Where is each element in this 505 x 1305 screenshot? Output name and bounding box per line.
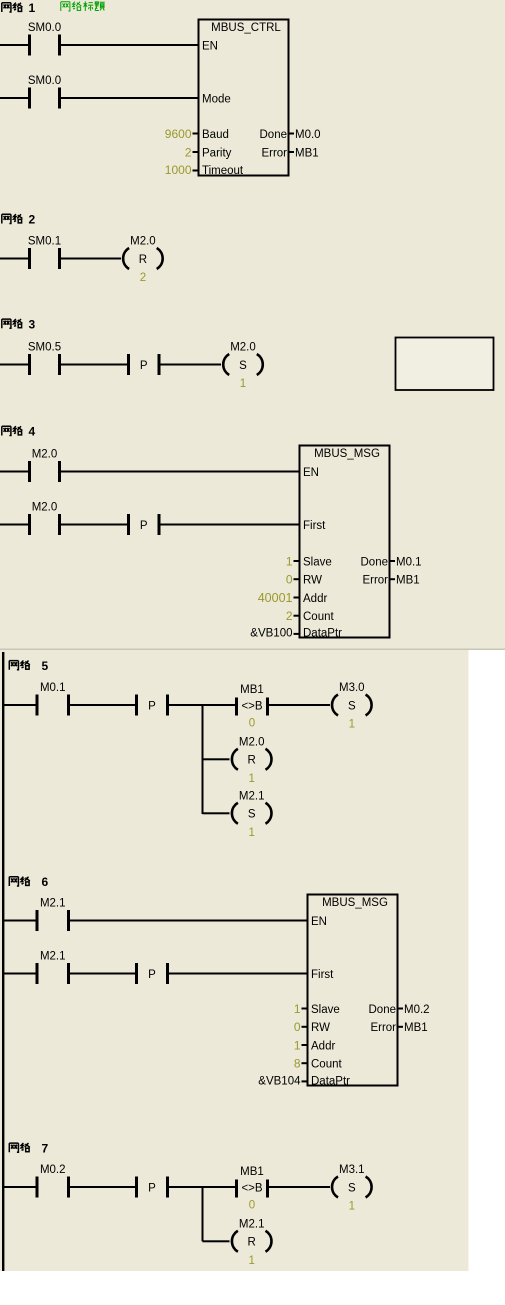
svg-text:M2.0: M2.0 [32,502,58,514]
branch junction vertical n7 [202,1186,204,1241]
value 0 RW input (n6) [294,1020,308,1034]
svg-text:40001: 40001 [258,591,293,605]
svg-text:RW: RW [311,1022,330,1034]
contact M0.1 n5 [36,682,71,716]
svg-text:MB1: MB1 [396,575,420,587]
svg-text:P: P [140,520,148,532]
coil S M2.1 value 1 (n5 branch3) [232,790,272,839]
svg-text:M2.1: M2.1 [239,790,265,802]
network 6 label [9,875,48,889]
svg-text:MB1: MB1 [240,684,264,696]
output Done -> M0.2 (n6) [398,1004,430,1016]
svg-text:1: 1 [248,1255,254,1267]
output Error -> MB1 [289,147,319,159]
wire n1 rung1 to EN [61,44,198,46]
wire n3 left [0,364,28,366]
svg-text:0: 0 [249,718,255,730]
contact SM0.1 n2 [28,236,61,270]
wire n6 rung2 to First [169,973,308,975]
svg-text:0: 0 [286,573,293,587]
svg-text:SM0.0: SM0.0 [28,22,61,34]
svg-text:1: 1 [248,773,254,785]
svg-text:M2.0: M2.0 [32,449,58,461]
svg-text:M3.0: M3.0 [339,682,365,694]
value 8 Count input (n6) [294,1057,308,1071]
svg-text:9600: 9600 [165,127,192,141]
wire n7 mid1 [70,1186,135,1188]
value 1 Slave input (n6) [294,1002,308,1016]
svg-text:S: S [348,1182,356,1194]
compare contact MB1 <>B 0 n5 [235,684,269,730]
function block MBUS_CTRL U1 [199,20,289,178]
svg-text:Mode: Mode [202,93,231,105]
svg-text:R: R [248,755,256,767]
svg-text:R: R [248,1237,256,1249]
svg-text:DataPtr: DataPtr [303,628,342,640]
svg-text:MBUS_CTRL: MBUS_CTRL [211,22,281,34]
svg-text:8: 8 [294,1057,301,1071]
value 40001 Addr input [258,591,300,605]
network 4 label [2,425,36,439]
svg-text:MBUS_MSG: MBUS_MSG [314,448,380,460]
wire n6 rung1 from rail [3,920,36,922]
svg-text:Slave: Slave [311,1004,340,1016]
wire n5 mid2 through junction [169,704,235,706]
svg-text:<>B: <>B [241,1182,262,1194]
svg-text:P: P [148,700,156,712]
svg-text:4: 4 [29,425,36,439]
svg-text:MB1: MB1 [295,147,319,159]
svg-text:Error: Error [362,575,388,587]
value 2 Count input [286,609,300,623]
svg-text:Done: Done [361,556,389,568]
coil S M3.1 value 1 [332,1164,372,1213]
svg-text:1: 1 [286,554,293,568]
wire n3 to coil [161,364,222,366]
svg-text:P: P [148,1182,156,1194]
svg-text:S: S [348,700,356,712]
white page area right of bottom pane [469,650,505,1271]
wire n6 rung2 from rail [3,973,36,975]
wire n2 to coil [61,258,121,260]
svg-text:Timeout: Timeout [202,165,244,177]
svg-text:Addr: Addr [303,593,327,605]
contact SM0.0 n1 rung1 [28,22,61,56]
svg-text:<>B: <>B [241,700,262,712]
svg-text:M2.1: M2.1 [40,898,66,910]
svg-text:1000: 1000 [165,163,192,177]
svg-text:EN: EN [311,916,327,928]
contact M2.0 n4 rung2 [28,502,61,536]
svg-text:Slave: Slave [303,556,332,568]
svg-text:S: S [239,360,247,372]
wire n5 to coil M3.0 [269,704,330,706]
svg-text:M0.2: M0.2 [40,1164,66,1176]
svg-text:2: 2 [185,145,192,159]
coil R M2.0 value 1 (n5 branch2) [232,736,272,785]
svg-text:Addr: Addr [311,1040,335,1052]
network 3 label [2,317,36,331]
output Error -> MB1 (n6) [398,1022,428,1034]
svg-text:0: 0 [249,1200,255,1212]
wire n7 from rail [3,1186,36,1188]
positive edge contact P n5 [135,695,169,716]
svg-text:EN: EN [303,467,319,479]
wire n6 rung1 to EN [70,920,308,922]
svg-text:Error: Error [370,1022,396,1034]
output Error -> MB1 [390,575,420,587]
output Done -> M0.0 [289,129,321,141]
compare contact MB1 <>B 0 n7 [235,1166,269,1212]
function block MBUS_MSG U3 [308,895,398,1088]
svg-text:Error: Error [261,147,287,159]
svg-text:1: 1 [294,1002,301,1016]
svg-text:Done: Done [369,1004,397,1016]
wire n3 mid [61,364,127,366]
svg-text:M0.0: M0.0 [295,129,321,141]
network 5 label [9,659,48,673]
svg-text:7: 7 [42,1141,49,1155]
function block MBUS_MSG U2 [300,446,390,640]
svg-text:Parity: Parity [202,147,232,159]
svg-text:P: P [140,360,148,372]
svg-text:R: R [139,254,147,266]
svg-text:M2.0: M2.0 [239,736,265,748]
value 0 RW input [286,573,300,587]
value &VB100 DataPtr input [250,628,299,640]
svg-text:3: 3 [29,317,36,331]
wire n4 rung1 to EN [61,471,299,473]
svg-text:S: S [248,809,256,821]
coil S M2.0 value 1 [223,342,263,391]
value &VB104 DataPtr input (n6) [258,1075,307,1087]
network 2 label [2,213,36,227]
svg-text:1: 1 [294,1038,301,1052]
svg-text:Done: Done [260,129,288,141]
wire n4 rung1 left [0,471,28,473]
svg-text:M0.1: M0.1 [40,682,66,694]
contact M2.1 n6 rung1 [36,898,71,932]
svg-text:First: First [311,969,334,981]
svg-text:Baud: Baud [202,129,229,141]
svg-text:First: First [303,520,326,532]
svg-text:Count: Count [303,611,334,623]
contact M0.2 n7 [36,1164,71,1198]
branch junction vertical n5 [202,704,204,814]
svg-text:M3.1: M3.1 [339,1164,365,1176]
white band below bottom pane [0,1271,505,1300]
left power rail (bottom pane) [2,652,4,1271]
value 1000 Timeout input [165,163,199,177]
network title text (green) [61,1,105,11]
svg-text:M2.1: M2.1 [239,1218,265,1230]
wire n5 mid1 [70,704,135,706]
svg-text:2: 2 [140,272,146,284]
network 1 label [2,1,36,15]
editor background (top pane) [0,0,505,650]
svg-text:P: P [148,969,156,981]
wire n1 rung1 left [0,44,28,46]
svg-text:SM0.0: SM0.0 [28,75,61,87]
svg-text:M2.0: M2.0 [130,236,156,248]
svg-text:Count: Count [311,1059,342,1071]
output Done -> M0.1 [390,556,422,568]
value 9600 Baud input [165,127,199,141]
svg-text:SM0.5: SM0.5 [28,342,61,354]
positive edge contact P n7 [135,1177,169,1198]
svg-text:DataPtr: DataPtr [311,1075,350,1087]
svg-text:1: 1 [349,719,355,731]
wire n7 mid2 through junction [169,1186,235,1188]
svg-text:M2.1: M2.1 [40,951,66,963]
svg-text:2: 2 [286,609,293,623]
branch 2 wire n5 [203,758,230,760]
contact M2.0 n4 rung1 [28,449,61,483]
contact SM0.0 n1 rung2 [28,75,61,109]
wire n1 rung2 to Mode [61,97,198,99]
svg-text:M0.2: M0.2 [404,1004,430,1016]
coil S M3.0 value 1 [332,682,372,731]
wire n6 rung2 mid [70,973,135,975]
editor background (bottom pane) [0,650,469,1271]
wire n7 to coil M3.1 [269,1186,330,1188]
contact SM0.5 n3 [28,342,61,376]
positive edge contact P n4 [127,514,161,535]
wire n5 from rail [3,704,36,706]
svg-text:6: 6 [42,875,49,889]
coil R M2.1 value 1 (n7 branch2) [232,1218,272,1267]
wire n4 rung2 mid [61,524,127,526]
svg-text:1: 1 [240,378,246,390]
wire n4 rung2 to First [161,524,300,526]
wire n4 rung2 left [0,524,28,526]
svg-text:MB1: MB1 [404,1022,428,1034]
svg-text:MBUS_MSG: MBUS_MSG [322,897,388,909]
svg-text:&VB100: &VB100 [250,628,292,640]
svg-text:5: 5 [42,659,49,673]
branch 2 wire n7 [203,1240,230,1242]
svg-text:M2.0: M2.0 [230,342,256,354]
svg-text:RW: RW [303,575,322,587]
svg-text:&VB104: &VB104 [258,1075,301,1087]
network 7 label [9,1141,48,1155]
svg-text:MB1: MB1 [240,1166,264,1178]
svg-text:EN: EN [202,40,218,52]
empty selection box at right [396,338,494,391]
svg-text:1: 1 [29,1,36,15]
value 1 Addr input (n6) [294,1038,308,1052]
coil R M2.0 value 2 [123,236,163,285]
positive edge contact P n6 [135,963,169,984]
value 2 Parity input [185,145,199,159]
svg-text:M0.1: M0.1 [396,556,422,568]
branch 3 wire n5 [203,812,230,814]
svg-text:1: 1 [248,827,254,839]
svg-text:0: 0 [294,1020,301,1034]
value 1 Slave input [286,554,300,568]
pane divider seam [0,649,505,650]
wire n2 left [0,258,28,260]
wire n1 rung2 left [0,97,28,99]
positive edge contact P n3 [127,354,161,375]
svg-text:2: 2 [29,213,36,227]
contact M2.1 n6 rung2 [36,951,71,985]
svg-text:SM0.1: SM0.1 [28,236,61,248]
svg-text:1: 1 [349,1201,355,1213]
